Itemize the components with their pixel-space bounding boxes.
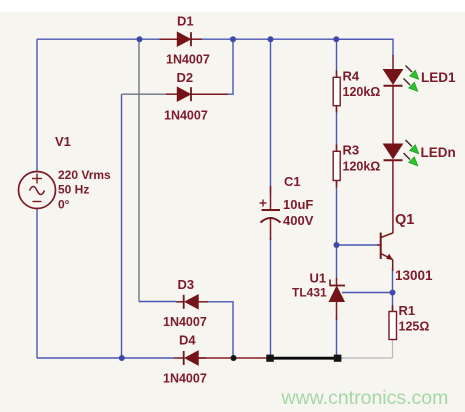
LEDn light arrows [404, 140, 419, 166]
svg-text:R1: R1 [399, 303, 416, 318]
svg-text:50 Hz: 50 Hz [58, 183, 89, 197]
wire bottom rail red segment D4 to C1 node [198, 357, 268, 359]
wire TL431 anode to rail [336, 318, 338, 358]
label R3 value 120k [343, 160, 381, 174]
junction dot top rail x=270.5 [268, 36, 274, 42]
watermark www.cntronics.com [281, 387, 449, 409]
label C1 value 400V [283, 213, 314, 228]
capacitor C1 [260, 186, 281, 240]
resistor R1 [389, 305, 397, 340]
label D1 value 1N4007 [166, 53, 210, 67]
label U1 [310, 271, 327, 286]
svg-text:120kΩ: 120kΩ [343, 85, 381, 99]
wire C1 branch lower [270, 238, 272, 358]
junction dot ref node [390, 290, 396, 296]
wire V1 top riser [36, 39, 38, 171]
wire R4-R3 link [336, 105, 338, 152]
svg-text:C1: C1 [284, 174, 301, 189]
svg-text:R4: R4 [343, 69, 360, 84]
label Q1 value 13001 [395, 268, 433, 283]
svg-text:Q1: Q1 [395, 212, 414, 228]
wire R3 to base node [336, 180, 338, 279]
wire D2 row left segment [122, 93, 167, 95]
svg-text:R3: R3 [343, 143, 360, 158]
svg-text:D1: D1 [177, 14, 194, 29]
svg-text:D3: D3 [178, 277, 195, 292]
diode D3 [176, 295, 208, 309]
LED D_LED1 [384, 70, 403, 86]
wire bottom rail left [37, 357, 174, 359]
svg-text:1N4007: 1N4007 [163, 372, 207, 386]
svg-text:1N4007: 1N4007 [166, 53, 210, 67]
wire base node to Q1 base [337, 244, 379, 246]
wire bottom rail gray segment [337, 357, 393, 359]
svg-text:10uF: 10uF [283, 197, 313, 212]
label V1 value 50 Hz [58, 183, 89, 197]
label LEDn [421, 145, 456, 160]
svg-text:125Ω: 125Ω [399, 320, 430, 334]
label R4 value 120k [343, 85, 381, 99]
label D1 [177, 14, 194, 29]
label U1 value TL431 [292, 286, 327, 300]
svg-text:TL431: TL431 [292, 286, 327, 300]
label Q1 [395, 212, 414, 228]
junction dot top rail x=233 [230, 36, 236, 42]
junction dot top rail x=139 [137, 36, 143, 42]
wire V1 bottom riser [36, 209, 38, 359]
svg-text:13001: 13001 [395, 268, 433, 283]
wire riser D1-anode/D3-cathode x=139 [138, 39, 140, 302]
label C1 value 10uF [283, 197, 313, 212]
label V1 value 220 Vrms [58, 168, 111, 182]
resistor R3 [333, 145, 340, 188]
svg-text:220 Vrms: 220 Vrms [58, 168, 111, 182]
label D4 [179, 333, 196, 348]
wire riser D2-anode/D4-cathode x=121.5 [121, 94, 123, 358]
svg-text:V1: V1 [55, 134, 71, 149]
svg-text:0°: 0° [58, 198, 70, 212]
wire bottom rail black bus segment [267, 357, 342, 360]
LED branch red wire upper [392, 55, 394, 70]
wire R1 bottom to rail (gray net) [392, 339, 394, 358]
label D2 [177, 70, 194, 85]
label R1 [399, 303, 416, 318]
label R3 [343, 143, 360, 158]
wire D3 row left segment [139, 301, 176, 303]
svg-text:D2: D2 [177, 70, 194, 85]
label V1 value 0 deg [58, 198, 70, 212]
svg-text:D4: D4 [179, 333, 196, 348]
label D4 value 1N4007 [163, 372, 207, 386]
label R4 [343, 69, 360, 84]
LED D_LEDn [384, 144, 403, 160]
label D3 [178, 277, 195, 292]
svg-text:1N4007: 1N4007 [164, 108, 208, 122]
label V1 [55, 134, 71, 149]
wire top rail [37, 38, 393, 40]
junction square bottom rail x=336.5 (black) [334, 355, 342, 362]
svg-text:120kΩ: 120kΩ [343, 160, 381, 174]
transistor Q1 [377, 233, 393, 272]
label LED1 [421, 70, 456, 85]
diode D4 [174, 351, 206, 365]
svg-text:www.cntronics.com: www.cntronics.com [281, 387, 449, 409]
wire emitter to ref node [392, 268, 394, 293]
wire LED branch top corner [337, 39, 394, 56]
svg-text:400V: 400V [283, 213, 314, 228]
shunt regulator U1 TL431 [329, 278, 345, 320]
LED string red wire to collector [392, 161, 394, 233]
diode D1 [160, 32, 203, 46]
label C1 [284, 174, 301, 189]
AC source V1 [19, 172, 56, 209]
wire ref node to R1 top [392, 293, 394, 313]
junction dot bottom rail x=121.5 [119, 355, 125, 361]
wire TL431 ref wire [342, 292, 393, 294]
junction square bottom rail x=269 (black) [266, 355, 274, 362]
svg-text:LED1: LED1 [421, 70, 456, 85]
junction dot base node [334, 242, 340, 248]
resistor R4 [333, 71, 340, 113]
svg-text:1N4007: 1N4007 [163, 315, 207, 329]
label D3 value 1N4007 [163, 315, 207, 329]
svg-text:U1: U1 [310, 271, 327, 286]
wire R-branch upper x=336 [336, 39, 338, 78]
label R1 value 125 ohm [399, 320, 430, 334]
wire D3 anode riser x=233 [208, 302, 233, 358]
wire D2 cathode riser x=233 [227, 39, 233, 94]
wire C1 branch upper [270, 39, 272, 193]
label D2 value 1N4007 [164, 108, 208, 122]
svg-text:LEDn: LEDn [421, 145, 456, 160]
LED string red wire middle [392, 86, 394, 144]
diode D2 [166, 87, 228, 101]
junction dot top rail x=336 [333, 36, 339, 42]
LED1 light arrows [404, 66, 419, 92]
junction dot bottom rail x=233 (black) [231, 355, 237, 361]
